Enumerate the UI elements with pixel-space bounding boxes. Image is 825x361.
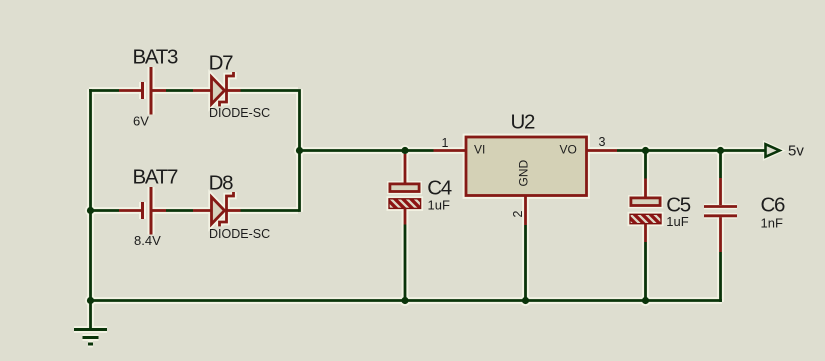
- wire mid to U2 pin1: [300, 149, 434, 152]
- battery BAT3: [119, 67, 166, 115]
- wire D8 output: [241, 209, 300, 212]
- svg-text:3: 3: [599, 135, 606, 149]
- wire U2 pin2 to bottom bus: [524, 225, 527, 301]
- svg-text:DIODE-SC: DIODE-SC: [209, 106, 270, 120]
- junction C5 top: [642, 147, 649, 154]
- wire C6 top stub: [719, 151, 722, 179]
- capacitor C4: [389, 154, 421, 225]
- svg-text:C6: C6: [761, 194, 786, 217]
- wire row2 left stub: [89, 209, 119, 212]
- wire BAT7 to D8: [166, 209, 193, 212]
- diode D8: [193, 192, 241, 226]
- svg-text:5v: 5v: [788, 143, 804, 160]
- power flag 5v: [766, 144, 780, 157]
- wire D7 output down to row2: [241, 91, 300, 212]
- wire BAT3 to D7: [166, 89, 193, 92]
- svg-text:1uF: 1uF: [428, 198, 450, 213]
- wire C5 bottom: [644, 242, 647, 301]
- svg-text:1nF: 1nF: [761, 216, 783, 231]
- svg-text:BAT7: BAT7: [133, 166, 178, 189]
- svg-text:U2: U2: [511, 111, 536, 134]
- svg-text:VI: VI: [474, 143, 485, 157]
- svg-text:DIODE-SC: DIODE-SC: [209, 227, 270, 241]
- svg-text:VO: VO: [560, 143, 577, 157]
- junction node diodes to regulator: [296, 147, 303, 154]
- wire C6 bottom: [719, 252, 722, 302]
- diode D7: [193, 72, 241, 106]
- svg-text:1uF: 1uF: [666, 214, 688, 229]
- svg-text:D7: D7: [209, 52, 234, 75]
- junction C6 top: [717, 147, 724, 154]
- svg-text:GND: GND: [517, 160, 531, 187]
- wire left vertical bus: [89, 89, 92, 302]
- svg-text:C4: C4: [427, 177, 452, 200]
- junction bottom-left ground node: [87, 297, 94, 304]
- wire bottom bus: [89, 299, 722, 302]
- svg-text:8.4V: 8.4V: [134, 233, 161, 248]
- capacitor C6: [704, 178, 737, 252]
- battery BAT7: [119, 187, 166, 235]
- svg-text:2: 2: [511, 211, 525, 218]
- wire top-left stub to BAT3: [89, 89, 119, 92]
- svg-text:D8: D8: [209, 172, 234, 195]
- wire U2 pin3 to output: [617, 149, 766, 152]
- junction left bus row2: [87, 207, 94, 214]
- junction bottom C4: [401, 297, 408, 304]
- wire C5 top stub: [644, 151, 647, 179]
- ground: [74, 301, 107, 345]
- junction C4 top: [401, 147, 408, 154]
- wire C4 bottom: [404, 225, 407, 301]
- svg-text:C5: C5: [666, 194, 691, 217]
- junction bottom U2 gnd: [522, 297, 529, 304]
- capacitor C5: [630, 179, 661, 243]
- junction bottom C5: [642, 297, 649, 304]
- op-amp U2 regulator box: [434, 137, 618, 225]
- svg-text:BAT3: BAT3: [133, 46, 178, 69]
- svg-text:1: 1: [441, 136, 448, 150]
- svg-text:6V: 6V: [133, 114, 149, 129]
